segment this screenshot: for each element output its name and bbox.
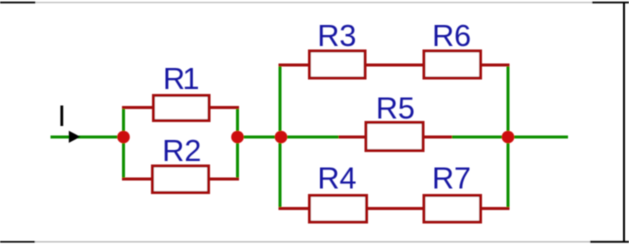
svg-text:R2: R2 bbox=[162, 134, 201, 168]
svg-text:R7: R7 bbox=[432, 162, 471, 196]
svg-text:R6: R6 bbox=[432, 19, 471, 53]
svg-text:R5: R5 bbox=[376, 91, 415, 125]
svg-text:R3: R3 bbox=[317, 19, 356, 53]
svg-text:I: I bbox=[58, 100, 66, 133]
svg-text:R1: R1 bbox=[163, 62, 200, 96]
svg-text:R4: R4 bbox=[318, 162, 357, 196]
